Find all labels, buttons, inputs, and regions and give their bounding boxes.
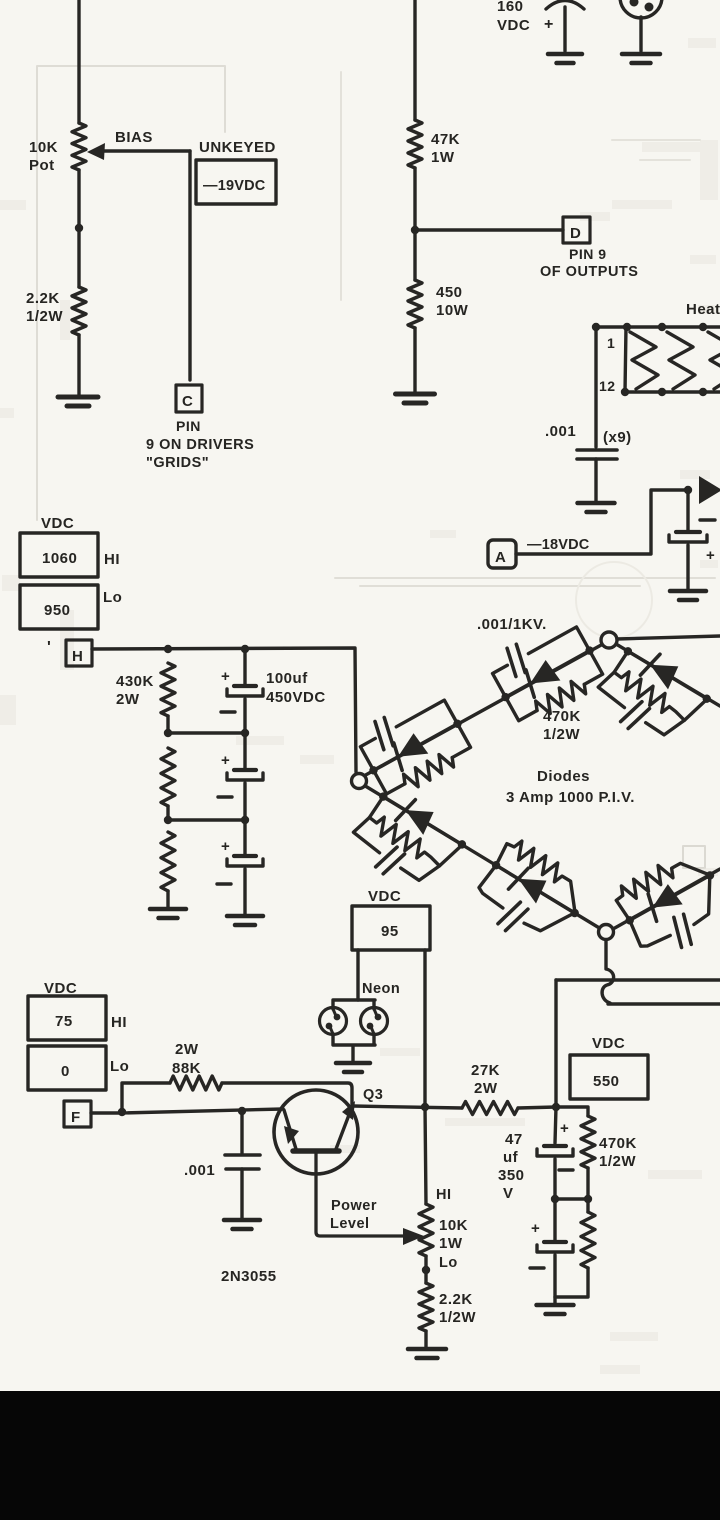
wire: divider bus down (425, 1106, 426, 1204)
svg-text:HI: HI (104, 551, 120, 568)
svg-text:H: H (72, 648, 83, 665)
svg-text:—18VDC: —18VDC (527, 537, 590, 553)
svg-text:—19VDC: —19VDC (203, 178, 266, 194)
wire: Q3 base down to wiper (316, 1151, 404, 1236)
svg-text:550: 550 (593, 1073, 620, 1090)
wire: output bus upper (556, 978, 720, 981)
D5 resistor loop (494, 835, 590, 912)
svg-text:BIAS: BIAS (115, 129, 153, 146)
svg-text:+: + (560, 1120, 569, 1137)
resistor 2.2K 1/2W (419, 1283, 433, 1331)
svg-text:88K: 88K (172, 1060, 201, 1077)
svg-text:1W: 1W (439, 1235, 463, 1252)
svg-text:2.2K: 2.2K (26, 290, 60, 307)
D5 terminal dots (490, 859, 502, 871)
wire down to node (413, 168, 416, 280)
rectifier cell D3 (588, 636, 718, 758)
D1 axis wire (374, 724, 458, 771)
label minus (700, 518, 715, 521)
svg-text:uf: uf (503, 1149, 519, 1166)
ground (100uf chain) (227, 914, 263, 919)
D2 parallel RC-diode cell outline (493, 627, 603, 721)
wire: F to base bus (91, 1111, 122, 1114)
svg-text:PIN: PIN (176, 418, 201, 434)
wire: bottom of 470K chain to cap chain (555, 1199, 588, 1297)
wire: up and over via 88K (122, 1083, 170, 1113)
capacitor 100uf (2 of 3) (243, 733, 246, 768)
resistor 430K 2W (1 of 3) (161, 663, 175, 716)
svg-text:470K: 470K (543, 708, 581, 725)
svg-text:Neon: Neon (362, 981, 400, 997)
wire to 550 node (518, 1107, 556, 1108)
wire: H bus to bridge (92, 648, 356, 772)
heater winding zigzag 3 (708, 332, 720, 389)
wire: bridge edge lower-left (362, 784, 601, 929)
wire: bridge edge upper-left (362, 644, 603, 777)
wire (639, 17, 642, 51)
wire: B+ feed vertical (413, 0, 416, 120)
svg-text:+: + (221, 668, 230, 685)
wire: pot lower arm (77, 170, 80, 287)
svg-text:47: 47 (505, 1131, 523, 1148)
svg-text:+: + (221, 752, 230, 769)
resistor 450 10W (408, 280, 422, 328)
wire (594, 459, 597, 501)
wire to node D box (415, 228, 563, 231)
heater winding zigzag 2 (667, 332, 695, 389)
D2 capacitor plate pair (502, 643, 531, 677)
pin 1 / pin 12 stub (625, 327, 626, 392)
wire to ground (166, 891, 169, 907)
wire: emitter node to 27K (353, 1106, 462, 1108)
resistor 470K 1/2W (1 of 2) (581, 1116, 595, 1168)
svg-text:V: V (503, 1185, 514, 1202)
box: unkeyed -19VDC measurement (196, 160, 276, 204)
capacitor 47uf (2 of 2) (553, 1199, 556, 1240)
svg-text:2W: 2W (474, 1080, 498, 1097)
D2 axis wire (506, 651, 590, 698)
svg-text:+: + (221, 838, 230, 855)
D6 axis wire (630, 875, 710, 920)
ground (450 10W) (396, 392, 435, 397)
svg-text:2W: 2W (175, 1041, 199, 1058)
D5 axis wire (496, 865, 575, 913)
D3 diode bar (640, 651, 660, 678)
svg-text:Diodes: Diodes (537, 768, 590, 785)
svg-text:1060: 1060 (42, 550, 77, 567)
wire to ground (77, 335, 80, 396)
svg-text:450: 450 (436, 284, 463, 301)
svg-text:.001/1KV.: .001/1KV. (477, 616, 547, 633)
wire to ground (243, 869, 246, 914)
wire: bus down to 550 node (554, 980, 557, 1107)
node A box (488, 540, 516, 568)
svg-text:HI: HI (436, 1187, 452, 1203)
D1 equalizing resistor zigzag (401, 750, 457, 792)
rectifier cell D6 (609, 844, 720, 967)
neon bulb 2 (361, 1008, 388, 1035)
svg-text:F: F (71, 1109, 81, 1126)
svg-text:D: D (570, 225, 581, 242)
svg-text:10K: 10K (29, 139, 58, 156)
Q3 base bar (293, 1148, 339, 1154)
svg-text:1/2W: 1/2W (543, 726, 580, 743)
wire: bottom node down with hop (602, 940, 614, 1003)
resistor 27K 2W (462, 1102, 518, 1115)
svg-text:100uf: 100uf (266, 670, 308, 687)
svg-text:1/2W: 1/2W (599, 1153, 636, 1170)
bridge corner node (left) (352, 774, 367, 789)
potentiometer 10K 1W (419, 1204, 433, 1256)
D6 terminal dots (624, 915, 635, 926)
D1 diode triangle (392, 732, 429, 767)
potentiometer R (10K Pot) (72, 123, 86, 170)
ground (neon) (336, 1061, 370, 1066)
D4 capacitor loop (351, 814, 392, 853)
svg-text:VDC: VDC (497, 17, 530, 34)
junction to node D (411, 226, 419, 234)
svg-text:VDC: VDC (368, 888, 401, 905)
wire (166, 806, 169, 820)
svg-text:OF OUTPUTS: OF OUTPUTS (540, 264, 638, 280)
wire: bias feed vertical into 10K pot (77, 0, 80, 123)
resistor 430K (2 of 3) (161, 748, 175, 806)
box 550 VDC reading (570, 1055, 648, 1099)
node H box (66, 640, 92, 666)
ground (meter lamp) (622, 52, 660, 57)
wire: output bus lower (608, 1002, 720, 1005)
ground (47uf chain) (537, 1303, 574, 1308)
capacitor 100uf (3 of 3) (243, 820, 246, 854)
wire cap chain (243, 649, 246, 684)
neon bulbs bottom bracket (333, 1034, 375, 1061)
svg-text:1W: 1W (431, 149, 455, 166)
box 95 VDC reading (352, 906, 430, 950)
heater winding zigzag 1 (630, 332, 658, 389)
resistor 2.2K 1/2W (72, 287, 86, 335)
wiper arrow into 10K pot (403, 1228, 424, 1245)
svg-text:2N3055: 2N3055 (221, 1268, 277, 1285)
wire to ground (553, 1255, 556, 1303)
D3 resistor loop (609, 651, 707, 729)
D3 terminal dots (622, 646, 634, 658)
node C box (176, 385, 202, 412)
capacitor (160 VDC filter) curved plate (546, 1, 584, 10)
transistor Q3 2N3055 body (274, 1090, 358, 1174)
svg-text:350: 350 (498, 1167, 525, 1184)
resistor 88K 2W (170, 1076, 222, 1090)
svg-text:12: 12 (599, 378, 616, 394)
D4 terminal dots (378, 791, 390, 803)
svg-text:1: 1 (607, 335, 615, 351)
junction Lo (422, 1266, 430, 1274)
rectifier cell D1 (diode + 470K + .001/1KV) (349, 685, 478, 804)
resistor 470K (2 of 2) (581, 1212, 595, 1268)
wire: over to 470K chain (556, 1107, 588, 1116)
D5 diode triangle (512, 868, 549, 904)
heater bus top rail (596, 325, 720, 328)
D2 terminal dots (500, 691, 511, 702)
D3 diode triangle (644, 654, 681, 690)
D6 diode bar (643, 894, 662, 921)
D6 capacitor loop (627, 907, 670, 951)
svg-text:450VDC: 450VDC (266, 689, 326, 706)
svg-text:2.2K: 2.2K (439, 1291, 473, 1308)
node D box (563, 217, 590, 243)
wire (563, 7, 566, 51)
svg-text:.001: .001 (184, 1162, 215, 1179)
ground (2.2K) (408, 1347, 446, 1352)
junction (684, 486, 692, 494)
ground (bias filter cap) (670, 589, 706, 594)
wire (166, 716, 169, 733)
D3 capacitor loop (596, 669, 637, 707)
rectifier cell D2 (482, 612, 611, 731)
svg-text:2W: 2W (116, 691, 140, 708)
svg-text:9 ON DRIVERS: 9 ON DRIVERS (146, 437, 254, 453)
wire to ground (424, 1331, 427, 1347)
D1 terminal dots (368, 765, 379, 776)
svg-text:(x9): (x9) (603, 429, 632, 446)
D1 parallel RC-diode cell outline (360, 700, 470, 794)
svg-text:.001: .001 (545, 423, 576, 440)
D1 diode bar (389, 743, 408, 770)
wire (243, 699, 246, 733)
D1 capacitor plate pair (370, 717, 399, 751)
svg-text:Lo: Lo (439, 1255, 458, 1271)
node F box (64, 1101, 91, 1127)
D4 resistor loop (364, 796, 462, 874)
svg-text:160: 160 (497, 0, 524, 15)
bridge corner node (top) (601, 632, 617, 648)
svg-text:950: 950 (44, 602, 71, 619)
svg-text:Pot: Pot (29, 157, 55, 174)
link to 470K chain (555, 1197, 588, 1200)
resistor 430K (3 of 3) (161, 832, 175, 891)
D4 axis wire (383, 797, 462, 845)
svg-text:': ' (47, 639, 51, 656)
svg-text:Power: Power (331, 1198, 377, 1214)
wire to ground (240, 1169, 243, 1218)
equalizing link 2 (168, 818, 245, 821)
svg-text:A: A (495, 549, 506, 566)
wire: pot wiper arm with arrow (100, 149, 190, 152)
D5 capacitor loop (476, 864, 520, 908)
svg-text:+: + (544, 16, 554, 33)
ground (430K chain) (150, 907, 186, 912)
D3 axis wire (628, 651, 707, 698)
svg-text:HI: HI (111, 1014, 127, 1031)
D4 diode triangle (399, 799, 436, 835)
D5 diode bar (508, 865, 528, 892)
wire: heater rail down to bypass cap (594, 327, 597, 447)
svg-text:27K: 27K (471, 1062, 500, 1079)
svg-text:0: 0 (61, 1063, 70, 1080)
wire: 88K to emitter node (222, 1083, 352, 1104)
ground (heater bypass) (578, 501, 615, 506)
ground (160VDC cap) (548, 52, 582, 57)
svg-text:3 Amp 1000 P.I.V.: 3 Amp 1000 P.I.V. (506, 789, 635, 806)
wire: box to neon bulbs (356, 950, 359, 1000)
wire to ground (413, 328, 416, 393)
svg-text:1/2W: 1/2W (439, 1309, 476, 1326)
equalizing link 1 (168, 731, 245, 734)
ground (.001 cap) (224, 1218, 260, 1223)
wire: A to bias rectifier (516, 490, 688, 554)
wire (586, 1168, 589, 1199)
svg-text:C: C (182, 393, 193, 410)
svg-text:430K: 430K (116, 673, 154, 690)
wire (686, 545, 689, 589)
D6 diode triangle (646, 883, 683, 918)
panel meter lamp (top, clipped) (620, 0, 662, 18)
wire: top node to right (617, 636, 720, 639)
svg-text:Heat: Heat (686, 301, 720, 318)
heater bus bottom rail (624, 390, 720, 393)
wire: down to 47uf chain (555, 1107, 556, 1143)
svg-text:"GRIDS": "GRIDS" (146, 455, 209, 471)
diode (bias rectifier, clipped) (699, 476, 720, 504)
svg-text:47K: 47K (431, 131, 460, 148)
svg-text:95: 95 (381, 923, 399, 940)
wire: box to divider bus (423, 950, 426, 1106)
neon bulb 1 (320, 1008, 347, 1035)
svg-text:10K: 10K (439, 1217, 468, 1234)
box HV reading Lo 950 (20, 585, 98, 629)
wire: bridge edge upper-right (616, 644, 720, 706)
svg-text:470K: 470K (599, 1135, 637, 1152)
svg-text:Lo: Lo (110, 1058, 129, 1075)
wire: bridge edge lower-right (613, 869, 720, 929)
capacitor .001 (base bypass) (240, 1111, 243, 1153)
D2 equalizing resistor zigzag (533, 676, 589, 718)
D6 resistor loop (611, 847, 708, 922)
svg-text:Q3: Q3 (363, 1087, 383, 1103)
rectifier cell D5 (466, 834, 596, 959)
wire: base wire (122, 1109, 283, 1113)
svg-text:+: + (706, 547, 715, 564)
svg-text:UNKEYED: UNKEYED (199, 139, 276, 156)
svg-text:PIN 9: PIN 9 (569, 246, 607, 262)
capacitor (bias filter) (676, 530, 700, 534)
D2 diode bar (521, 670, 540, 697)
Q3 emitter lead w/ arrow (336, 1107, 352, 1149)
svg-text:+: + (531, 1220, 540, 1237)
wire down to filter cap (686, 490, 689, 530)
svg-text:1/2W: 1/2W (26, 308, 63, 325)
wire (553, 1159, 556, 1199)
ground (bias divider) (58, 395, 98, 400)
D2 diode triangle (524, 659, 561, 694)
svg-text:10W: 10W (436, 302, 469, 319)
resistor 47K 1W (408, 120, 422, 168)
neon bulbs top bracket (333, 1000, 375, 1009)
scanner black band (0, 1391, 720, 1520)
svg-text:VDC: VDC (41, 515, 74, 532)
junction on bias line (75, 224, 83, 232)
box drive reading HI 75 (28, 996, 106, 1040)
svg-text:VDC: VDC (592, 1035, 625, 1052)
box HV reading HI 1060 (20, 533, 98, 577)
bridge corner node (bottom) (599, 925, 614, 940)
rectifier cell D4 (343, 781, 473, 903)
svg-text:Lo: Lo (103, 589, 122, 606)
D4 diode bar (396, 797, 416, 824)
svg-text:75: 75 (55, 1013, 73, 1030)
Q3 collector lead (284, 1110, 296, 1149)
wire: wiper down to node C (188, 151, 191, 380)
box drive reading Lo 0 (28, 1046, 106, 1090)
svg-text:Level: Level (330, 1216, 370, 1232)
